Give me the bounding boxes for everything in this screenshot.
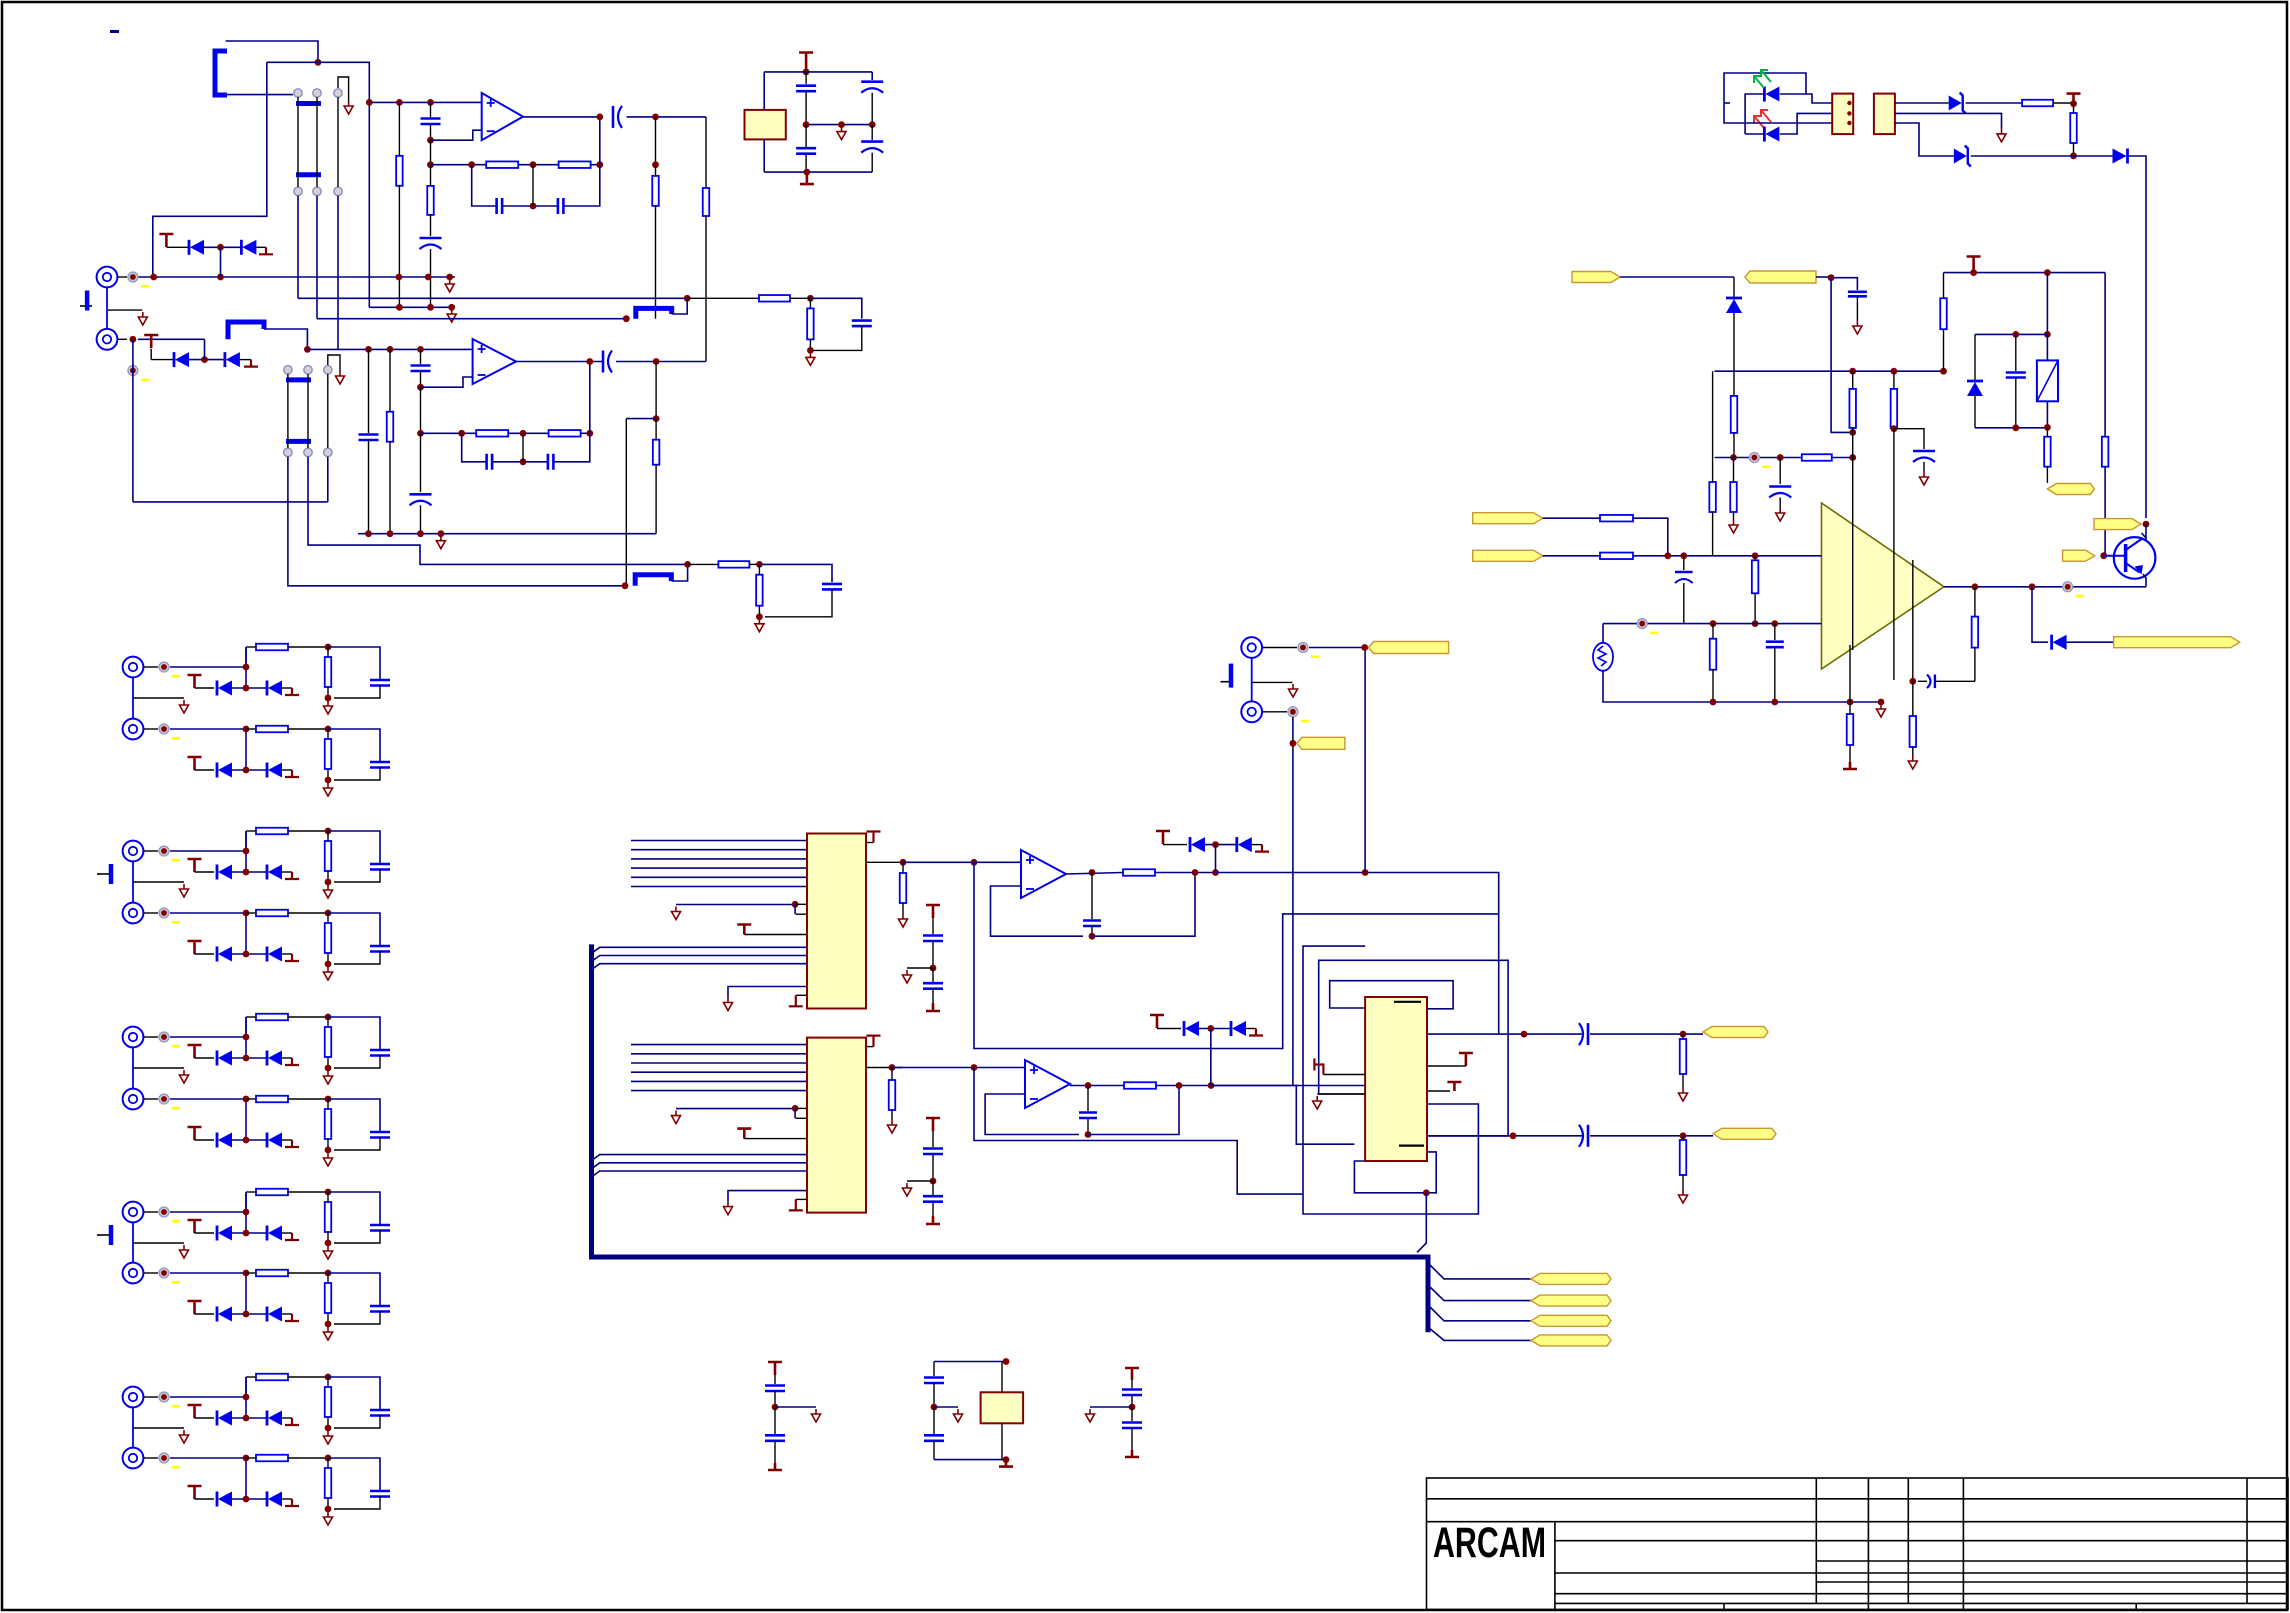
LED arrows red [1754, 110, 1771, 128]
wire [232, 1417, 266, 1419]
wire [226, 41, 318, 62]
wire [245, 1377, 247, 1418]
chassis ground [97, 873, 109, 875]
wire [672, 298, 688, 314]
rail mid [1715, 370, 1944, 372]
junction [1362, 869, 1369, 876]
junction [243, 1496, 250, 1503]
wire [153, 62, 267, 277]
bias resistor R [398, 102, 400, 155]
ground [324, 783, 333, 796]
ground [888, 1120, 897, 1133]
ground stub [285, 1418, 299, 1425]
wire [282, 1139, 292, 1141]
ground [336, 371, 345, 384]
wire [245, 1017, 247, 1058]
wire rail A from contact [297, 196, 299, 299]
ground [907, 967, 933, 969]
junction [325, 695, 332, 702]
LED wiring loop [1724, 73, 1806, 103]
test pad [159, 1268, 169, 1278]
wire [195, 1232, 215, 1234]
wire to inverting input [431, 130, 482, 140]
RCA phono connector [123, 841, 144, 862]
junction [596, 114, 603, 121]
junction [304, 346, 311, 353]
wire [1733, 313, 1735, 396]
junction [427, 137, 434, 144]
wire [334, 1311, 380, 1324]
feedback cap row 2 [462, 433, 487, 462]
junction [217, 244, 224, 251]
wire [195, 1057, 215, 1059]
RCA connector CH-R [97, 329, 118, 350]
cap pair cluster 1 [768, 1362, 782, 1375]
junction [792, 1105, 799, 1112]
test pad [128, 272, 138, 282]
resistor top [1943, 273, 1945, 299]
electrolytic cap [1779, 458, 1781, 485]
wire [166, 246, 189, 248]
net flag A [1572, 272, 1620, 283]
wire [170, 850, 246, 852]
junction [1849, 429, 1856, 436]
op-amp U1A + input rail [369, 101, 481, 103]
clamp diode D-a [216, 1051, 219, 1066]
wire [189, 359, 225, 361]
long rail A [298, 297, 687, 299]
wire [195, 1139, 215, 1141]
junction [2012, 331, 2019, 338]
wire [1816, 276, 1831, 278]
junction [622, 582, 629, 589]
junction [325, 1240, 332, 1247]
shunt capacitor [370, 1306, 390, 1312]
wire [170, 1211, 246, 1213]
decoupling cap [805, 72, 807, 84]
ground [1679, 1190, 1688, 1203]
wire [327, 457, 329, 502]
switch contact [304, 366, 312, 374]
loop trace T3 [1319, 960, 1508, 1136]
RCA connector rec-out L [1241, 637, 1262, 658]
clamp diode D-b [266, 865, 269, 880]
junction [1085, 1131, 1092, 1138]
series resistor [246, 1272, 256, 1274]
filter IC [1365, 997, 1427, 1161]
junction [325, 1096, 332, 1103]
RCA phono connector [123, 1202, 144, 1223]
decoupling cap 2 [805, 125, 807, 147]
wire [132, 862, 134, 902]
input flag 1 [1473, 513, 1543, 524]
amp bottom pin + resistor [1849, 645, 1851, 714]
row 427 [1975, 427, 2047, 429]
ground stub [285, 1233, 299, 1240]
ground [138, 312, 147, 325]
amp pin line 1 [1852, 458, 1854, 651]
wire [133, 1067, 184, 1069]
junction [530, 161, 537, 168]
ground [180, 1070, 189, 1083]
series resistor [1123, 869, 1155, 876]
junction [1972, 583, 1979, 590]
power stub top [866, 1046, 874, 1048]
junction [325, 777, 332, 784]
power stub [188, 1220, 202, 1233]
shunt resistor [327, 913, 329, 923]
wire [245, 729, 247, 770]
junction [1680, 1031, 1687, 1038]
switch contact [294, 187, 302, 195]
zobel cap [1927, 675, 1931, 689]
regulator box [1001, 1362, 1003, 1393]
clamp diode D-b [266, 681, 269, 696]
wire [1199, 1028, 1231, 1030]
op-amp U4B [1025, 1060, 1070, 1108]
shunt capacitor [370, 1491, 390, 1497]
ground [324, 1153, 333, 1166]
ground [324, 1246, 333, 1259]
switch contact [324, 366, 332, 374]
ground stub [1255, 845, 1269, 852]
wire [1205, 844, 1237, 846]
junction [1849, 454, 1856, 461]
long rail B [317, 318, 626, 320]
shunt resistor [327, 1017, 329, 1027]
test pad [159, 1453, 169, 1463]
shunt capacitor [370, 1225, 390, 1231]
ground [436, 536, 445, 549]
wire [170, 666, 246, 668]
DAC IC box [807, 834, 866, 1009]
coupling capacitor [612, 106, 615, 128]
output pin wire [866, 1067, 903, 1069]
relay feed wire [2046, 273, 2048, 335]
wire [282, 871, 292, 873]
ground [899, 914, 908, 927]
junction [653, 358, 660, 365]
pin pair with ground wire [676, 904, 795, 906]
power stub [188, 1486, 202, 1499]
wire loop [133, 501, 328, 503]
clamp: power stub [159, 234, 173, 247]
op-amp U1B [473, 339, 516, 384]
wire [2046, 334, 2048, 360]
power bar [800, 172, 814, 184]
series resistor [246, 830, 256, 832]
clamp diode D-a [216, 1411, 219, 1426]
shunt resistor [327, 1192, 329, 1202]
wire [1246, 1028, 1256, 1030]
wire [1543, 555, 1600, 557]
output row 1 wire [1427, 1033, 1583, 1035]
junction [427, 99, 434, 106]
wire [144, 728, 158, 730]
junction [243, 1137, 250, 1144]
ground [1679, 1088, 1688, 1101]
wire [1780, 113, 1832, 134]
wire [810, 298, 861, 318]
series resistor [246, 912, 256, 914]
junction [396, 99, 403, 106]
DAC IC box [807, 1038, 866, 1213]
output wire 2 [1070, 1085, 1124, 1087]
wire [170, 1457, 246, 1459]
test pad [1637, 619, 1647, 629]
wire [240, 359, 251, 361]
RCA1 input rail [138, 276, 455, 278]
clamp diode [1230, 1021, 1233, 1036]
wire [195, 687, 215, 689]
test pad [128, 366, 138, 376]
emitter wire [2143, 574, 2146, 587]
shunt resistor [327, 1099, 329, 1109]
wire [195, 1313, 215, 1315]
feedback wire [991, 886, 1084, 936]
wire [1966, 102, 2022, 104]
ground stub [285, 688, 299, 695]
ground [180, 1245, 189, 1258]
wire [144, 1098, 158, 1100]
test pad [159, 908, 169, 918]
wire [334, 1496, 380, 1509]
ground stub [285, 1314, 299, 1321]
junction [930, 1178, 937, 1185]
wire [2128, 156, 2147, 518]
wire [245, 647, 247, 688]
junction [243, 1055, 250, 1062]
psu top rail [764, 71, 872, 73]
bus entry stubs U3 [592, 1155, 808, 1161]
clamp diode D-b [266, 1051, 269, 1066]
wire [232, 953, 266, 955]
ground [1920, 472, 1929, 485]
wire [1252, 844, 1262, 846]
coupling capacitor 2 [602, 351, 605, 373]
wire [1745, 94, 1764, 134]
power bar [926, 1216, 940, 1224]
series resistor to gnd chain [430, 165, 432, 186]
junction [971, 1064, 978, 1071]
wire [144, 912, 158, 914]
wire [245, 1099, 247, 1140]
net flag B [1745, 271, 1816, 283]
digital bus [592, 944, 1429, 1332]
junction [243, 1270, 250, 1277]
wire to inverting input [421, 377, 473, 387]
minus rail [1603, 623, 1822, 625]
cap minus to gnd [1774, 624, 1776, 640]
junction [586, 358, 593, 365]
ground [324, 885, 333, 898]
wire [903, 861, 974, 863]
ground [180, 700, 189, 713]
pin with ground arrow [728, 987, 807, 998]
power stub top [866, 842, 874, 844]
RCA phono connector [123, 1027, 144, 1048]
wire [763, 139, 765, 172]
wire [195, 1498, 215, 1500]
junction [1664, 552, 1671, 559]
power amp triangle U5 [1822, 503, 1945, 669]
wire [1543, 517, 1600, 519]
junction [807, 295, 814, 302]
junction [971, 859, 978, 866]
test pad [159, 1032, 169, 1042]
wire [282, 769, 292, 771]
load resistor out2 [1682, 1136, 1684, 1140]
cap pair cluster 2 [1125, 1368, 1139, 1380]
wire [1263, 647, 1297, 649]
wire [144, 1036, 158, 1038]
collector flag [2094, 519, 2141, 530]
wire [1724, 103, 1832, 123]
coupling cap out1 [1579, 1023, 1583, 1045]
input capacitor [430, 102, 432, 117]
junction [1192, 869, 1199, 876]
power stub [799, 53, 813, 72]
resistor to ground [809, 298, 811, 308]
divider resistor R-c [1852, 371, 1854, 389]
title block [1427, 1478, 2289, 1610]
wire [334, 1230, 380, 1243]
test pad [159, 1094, 169, 1104]
wire stub [1211, 1086, 1354, 1145]
wire [1895, 102, 1949, 104]
wire [1895, 113, 2002, 128]
junction [889, 1064, 896, 1071]
series resistor [246, 646, 256, 648]
clamp diode D-b [266, 763, 269, 778]
cap to ground [852, 321, 872, 327]
power stub [2067, 94, 2081, 103]
wire [1633, 555, 1822, 557]
chassis ground [97, 1234, 109, 1236]
junction [243, 848, 250, 855]
decoupling cap [932, 1131, 934, 1147]
junction [243, 726, 250, 733]
shunt capacitor [370, 1410, 390, 1416]
switch contact [284, 366, 292, 374]
ground [324, 1512, 333, 1525]
junction [325, 1147, 332, 1154]
wire [232, 1313, 266, 1315]
wire [282, 1232, 292, 1234]
wire [232, 1057, 266, 1059]
dual LED: diode red [1763, 127, 1766, 142]
junction [2044, 269, 2051, 276]
wire [232, 769, 266, 771]
wire [195, 769, 215, 771]
junction [1085, 1082, 1092, 1089]
wire [334, 1055, 380, 1068]
input bus wires [631, 840, 807, 842]
switch contact [324, 448, 332, 456]
zobel resistor [1974, 587, 1976, 617]
series resistor [246, 1457, 256, 1459]
ground [1908, 756, 1917, 769]
wire [267, 61, 318, 63]
ground [324, 1431, 333, 1444]
shunt resistor [327, 647, 329, 657]
junction [2070, 152, 2077, 159]
output row 2 wire [1427, 1135, 1583, 1137]
ground [837, 127, 846, 140]
RCA connector rec-out R [1241, 701, 1262, 722]
junction [243, 869, 250, 876]
resistor chain A [1731, 396, 1738, 433]
wire [245, 831, 247, 872]
wire [334, 951, 380, 964]
load resistor 2 [891, 1068, 893, 1081]
wire [132, 1408, 134, 1447]
junction [201, 356, 208, 363]
transistor Q1 [2114, 537, 2156, 579]
stage2 divider B [625, 419, 627, 586]
junction [325, 828, 332, 835]
stage1 divider B [705, 117, 707, 188]
wire [232, 687, 266, 689]
shunt capacitor [370, 1132, 390, 1138]
wire [1602, 624, 1604, 643]
wire [150, 349, 152, 360]
junction [325, 1455, 332, 1462]
net flag [1297, 737, 1345, 749]
RC after link L3: resistor [688, 563, 719, 565]
diode D-f [1726, 297, 1742, 300]
ground [907, 1180, 933, 1182]
wire [133, 697, 184, 699]
junction [1423, 1189, 1430, 1196]
wire [108, 309, 142, 311]
wire [204, 246, 241, 248]
wire [334, 1137, 380, 1150]
ground [1853, 321, 1862, 334]
wire [132, 1048, 134, 1088]
wire hook to ground [328, 355, 340, 371]
resistor under pin3 [1912, 681, 1914, 716]
switch contact [334, 89, 342, 97]
thick link L3 [635, 575, 671, 586]
bus entry stubs U2 [592, 947, 808, 953]
test pad [159, 662, 169, 672]
wire U4B out to filter [974, 1068, 1304, 1195]
clamp diode D-b [266, 1307, 269, 1322]
output diode [2032, 587, 2048, 642]
clamp diode [173, 352, 176, 367]
junction [325, 1014, 332, 1021]
svg-text:ARCAM: ARCAM [1433, 1519, 1546, 1567]
bus fan-out 1 [1428, 1263, 1531, 1279]
wire [334, 767, 380, 780]
bus fan-out 2 [1428, 1285, 1531, 1301]
wire [232, 1139, 266, 1141]
ground stub [244, 360, 258, 367]
wire [1831, 278, 1853, 433]
test pad [159, 846, 169, 856]
wire [328, 1099, 380, 1131]
wire [245, 1458, 247, 1499]
wire [144, 1211, 158, 1213]
junction [1510, 1132, 1517, 1139]
junction [1970, 269, 1977, 276]
junction [2044, 331, 2051, 338]
wire [144, 666, 158, 668]
connector J-LED [1832, 94, 1853, 135]
amp pin line 3 [1912, 560, 1914, 681]
RCA phono connector [123, 1089, 144, 1110]
